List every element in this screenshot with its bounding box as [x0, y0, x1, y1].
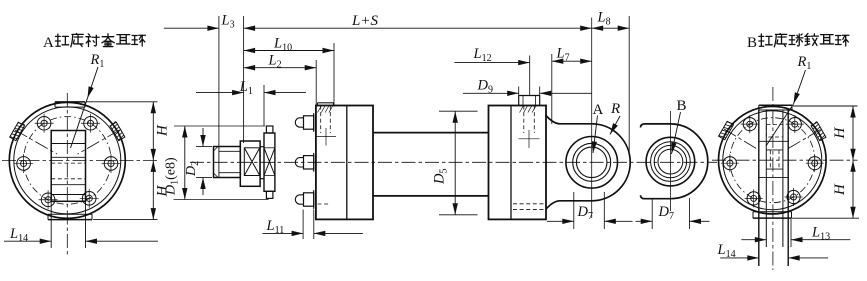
- L7 extension line: [551, 54, 553, 124]
- L14 dimension (A): [4, 240, 51, 242]
- bottom pad (A): [48, 219, 92, 221]
- bolt hole 4 (B): [747, 192, 760, 205]
- D5 dimension line: [454, 111, 456, 215]
- front port hidden lines: [320, 106, 322, 134]
- svg-text:A: A: [593, 102, 604, 118]
- bolt circle centerline (A): [24, 117, 112, 205]
- spherical bearing circles (B type): [646, 137, 695, 186]
- L12 extension line: [529, 56, 531, 96]
- D2 extension lines: [196, 146, 212, 148]
- bolt hole 1 (A): [84, 116, 98, 130]
- diagonal centerline upper-left (B): [724, 129, 758, 150]
- bolt hole 2 (B): [743, 118, 756, 131]
- diagonal centerline upper-right (A): [78, 130, 120, 154]
- L10 extension line: [333, 43, 335, 106]
- flange inner circle (A): [14, 107, 121, 214]
- svg-text:B: B: [747, 35, 757, 51]
- flange stud nut 1: [295, 118, 303, 127]
- L11 extension lines: [302, 210, 304, 240]
- flange inner circle (B): [723, 111, 822, 210]
- front block hidden line: [318, 203, 330, 205]
- rod thread stub: [214, 147, 241, 178]
- L13 dimension (B): [741, 239, 766, 241]
- horizontal centerline (B): [712, 159, 858, 161]
- L3 extension lines: [218, 16, 220, 149]
- svg-text:H: H: [832, 183, 848, 196]
- eye pin vertical centerline (A type): [591, 18, 593, 219]
- L3 dimension tail left: [164, 27, 219, 29]
- eye pin vertical centerline (B type): [669, 111, 671, 211]
- leader R1 (view A): [88, 67, 99, 98]
- front port center mark: [316, 136, 336, 138]
- cylinder tube: [373, 132, 489, 134]
- L11 dimension arrows: [262, 232, 303, 234]
- eye tab (A): [51, 131, 85, 202]
- bolt hole 6 (B): [808, 157, 821, 170]
- D1 extension lines: [174, 125, 265, 127]
- top pad (B): [759, 104, 792, 106]
- D5 extension lines: [439, 110, 478, 112]
- svg-text:H: H: [155, 124, 171, 137]
- D9 extension lines: [518, 87, 520, 96]
- L12 dimension line: [454, 62, 529, 64]
- horizontal centerline (A): [2, 159, 158, 161]
- L7 dimension line: [552, 60, 592, 62]
- D9 dimension arrows: [463, 92, 519, 94]
- bolt hole 1 (B): [788, 118, 801, 131]
- L1 dimension arrows: [196, 92, 244, 94]
- clamp nut upper-right (A): [110, 121, 125, 140]
- L10 dimension line: [244, 50, 334, 52]
- diagonal centerline upper-left (A): [15, 130, 57, 154]
- H dimension upper (B): [852, 106, 854, 160]
- L2 dimension line: [244, 67, 317, 69]
- clamp nut upper-left (A): [10, 121, 25, 140]
- front port boss: [318, 102, 334, 104]
- main centerline: [190, 161, 717, 163]
- svg-text:A: A: [43, 35, 54, 51]
- flange stud nut 2: [295, 158, 303, 167]
- H dimension upper (A): [152, 102, 154, 161]
- clamp nut upper-right (B): [811, 121, 826, 140]
- leader R1 (view B): [794, 70, 806, 104]
- bolt hole 4 (A): [41, 193, 55, 207]
- vertical centerline (B): [772, 87, 774, 270]
- D2 dimension arrows: [202, 128, 204, 147]
- svg-text:D1(e8): D1(e8): [164, 157, 181, 196]
- front head block: [316, 106, 373, 220]
- L2 extension line: [315, 60, 317, 106]
- clamp nut upper-left (B): [719, 120, 734, 139]
- bolt hole 5 (B): [787, 190, 800, 203]
- rear port boss: [518, 96, 520, 106]
- L+S dimension line: [244, 27, 592, 29]
- L8 dimension line: [592, 27, 630, 29]
- bolt hole 2 (A): [37, 116, 51, 130]
- D7 dimension (A eye): [547, 220, 574, 222]
- bolt hole 3 (B): [723, 157, 736, 170]
- flange outer circle (B): [719, 106, 827, 214]
- rod gland plate: [266, 126, 273, 133]
- eye lobe (A type): [546, 116, 592, 124]
- vertical centerline (A): [66, 93, 68, 255]
- rear port center mark: [519, 138, 540, 140]
- bolt circle centerline (B): [730, 118, 815, 203]
- rear cushion hidden lines: [513, 203, 546, 205]
- D7 dimension (B eye): [636, 220, 653, 222]
- rod collar: [240, 141, 260, 186]
- L8 extension line right: [628, 16, 630, 152]
- D1 dimension line: [184, 126, 186, 200]
- bolt hole 6 (A): [104, 157, 118, 171]
- front port hatching: [318, 106, 322, 113]
- rear port hatching: [520, 106, 524, 113]
- H dimension extension lines (A): [86, 101, 158, 103]
- svg-text:L+S: L+S: [351, 13, 378, 29]
- bottom pad (B): [753, 217, 792, 219]
- H dimension extension lines (B): [793, 105, 858, 107]
- L14 dimension (B): [720, 257, 759, 259]
- flange stud nut 3: [295, 195, 303, 204]
- eye lobe (B type): [641, 124, 671, 128]
- eye tab (B): [758, 110, 760, 266]
- svg-text:R: R: [610, 101, 620, 117]
- bolt hole 5 (A): [82, 192, 96, 206]
- rear port hidden lines: [523, 106, 525, 134]
- svg-text:B: B: [677, 98, 687, 114]
- diagonal centerline upper-right (B): [787, 130, 821, 150]
- H dimension lower (A): [152, 160, 154, 219]
- bolt hole 3 (A): [17, 157, 31, 171]
- top pad (A): [55, 101, 85, 103]
- eye bushing circles (A type): [566, 137, 618, 189]
- rear cap block: [489, 106, 547, 220]
- neck between collar and gland: [260, 146, 264, 148]
- H dimension lower (B): [852, 160, 854, 218]
- locknut cross box: [244, 148, 259, 176]
- flange outer circle (A): [9, 102, 125, 218]
- svg-text:H: H: [832, 127, 848, 140]
- L1 extension line: [263, 85, 265, 126]
